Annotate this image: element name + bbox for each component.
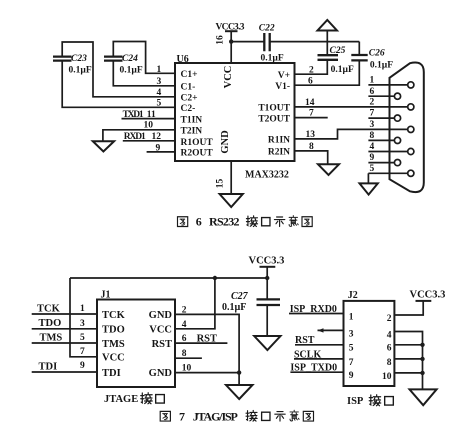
svg-text:V1-: V1- [275, 82, 290, 92]
svg-text:3: 3 [80, 319, 85, 329]
svg-text:C27: C27 [231, 291, 249, 302]
wire U6 pin15 GND [230, 161, 232, 194]
J1 pin7 wire from VCC rail [70, 278, 97, 357]
svg-text:6: 6 [308, 76, 313, 86]
capacitor C23 plates [53, 57, 72, 61]
ground at T2IN [93, 141, 114, 151]
svg-text:3: 3 [370, 120, 375, 130]
wire C26 bottom to U6 pin6 [295, 60, 360, 85]
svg-text:15: 15 [216, 179, 226, 189]
svg-text:3: 3 [157, 77, 162, 87]
DB9 pin stubs with numbers [368, 84, 407, 86]
wire C23 bottom to U6 pin5 [62, 61, 175, 108]
svg-text:4: 4 [182, 320, 187, 330]
J1 pin2 wire to ground rail [175, 314, 239, 385]
svg-text:2: 2 [309, 65, 314, 75]
capacitor C27 plates [257, 299, 281, 305]
svg-text:9: 9 [80, 361, 85, 371]
ground at C27 [254, 336, 280, 350]
svg-text:7: 7 [179, 409, 185, 423]
svg-text:5: 5 [80, 333, 85, 343]
svg-text:8: 8 [309, 142, 314, 152]
svg-text:RS232: RS232 [209, 215, 240, 229]
svg-text:4: 4 [157, 88, 162, 98]
svg-text:TDO: TDO [102, 325, 125, 336]
svg-text:10: 10 [182, 364, 192, 374]
wire rail to J1 pin4 [175, 278, 215, 329]
ground at DB9 pin5 [360, 183, 378, 194]
svg-text:7: 7 [80, 347, 85, 357]
svg-text:VCC: VCC [102, 353, 125, 364]
svg-text:TXD1: TXD1 [123, 110, 144, 120]
signal ISP_RXD0 wire [289, 313, 344, 315]
signal SCLK wire [294, 358, 344, 360]
op chip U6 MAX3232 box [175, 63, 295, 161]
svg-text:RST: RST [197, 333, 217, 344]
svg-text:8: 8 [182, 349, 187, 359]
capacitor C26 plates [351, 55, 367, 60]
svg-text:14: 14 [305, 98, 315, 108]
J2 pin6 wire [394, 344, 422, 346]
svg-text:TCK: TCK [102, 310, 126, 321]
svg-text:2: 2 [182, 305, 187, 315]
J2 pin10 wire [394, 372, 422, 374]
svg-text:R2OUT: R2OUT [181, 149, 214, 159]
capacitor C22 plates [264, 33, 269, 51]
svg-text:3: 3 [349, 329, 354, 339]
J1 pin10 wire [175, 372, 239, 374]
svg-text:5: 5 [370, 164, 375, 174]
svg-text:TMS: TMS [102, 339, 125, 350]
svg-text:1: 1 [80, 304, 85, 314]
wire C24 top to loop to U6 pin1 [113, 42, 175, 74]
svg-text:SCLK: SCLK [294, 349, 321, 360]
wire DB9 pin5 to ground [367, 173, 369, 183]
wire VCC3.3 to U6 pin16 [230, 31, 232, 63]
ground at U6 pin8 [318, 164, 339, 175]
svg-text:TDO: TDO [39, 318, 62, 329]
power bar [260, 266, 276, 268]
ground at J1 pin2/10 [226, 385, 253, 399]
svg-text:0.1µF: 0.1µF [120, 66, 143, 76]
svg-text:TDI: TDI [102, 368, 121, 379]
svg-text:2: 2 [387, 314, 392, 324]
svg-text:TMS: TMS [40, 332, 63, 343]
power up-triangle [318, 20, 338, 31]
svg-text:R1IN: R1IN [268, 136, 290, 146]
signal RXD1 wire to U6 pin12 [123, 140, 175, 142]
signal TMS wire [32, 342, 97, 344]
junction dot rail-C27 [265, 276, 269, 280]
svg-text:RST: RST [295, 335, 315, 346]
svg-text:12: 12 [152, 132, 162, 142]
VCC rail top [70, 277, 267, 279]
svg-text:0.1µF: 0.1µF [261, 54, 284, 64]
svg-text:0.1µF: 0.1µF [331, 65, 354, 75]
wire U6 pin8 R2IN to ground [295, 151, 328, 164]
svg-text:T2IN: T2IN [181, 127, 203, 137]
svg-text:6: 6 [182, 334, 187, 344]
svg-text:C22: C22 [259, 23, 275, 33]
svg-text:7: 7 [349, 358, 354, 368]
svg-text:C1+: C1+ [181, 70, 198, 80]
caption figure 7 [160, 409, 313, 423]
wire U6 pin9 stub [147, 151, 175, 153]
svg-text:V+: V+ [278, 71, 290, 81]
svg-text:JTAGE: JTAGE [104, 394, 138, 405]
svg-text:TDI: TDI [39, 361, 58, 372]
svg-text:9: 9 [370, 153, 375, 163]
svg-text:ISP_TXD0: ISP_TXD0 [290, 363, 337, 374]
wire VCC rail to C22 [231, 41, 264, 43]
wire C23 top to loop to U6 pin4 [62, 42, 175, 97]
wire U6 pin14 T1OUT to DB9 pin2 [295, 106, 408, 108]
svg-text:8: 8 [370, 131, 375, 141]
svg-text:VCC3.3: VCC3.3 [249, 256, 285, 267]
J2 pin2 wire to VCC3.3 [394, 301, 423, 315]
svg-text:C2+: C2+ [181, 94, 198, 104]
capacitor C24 plates [104, 57, 123, 61]
svg-text:GND: GND [149, 310, 173, 321]
J2 pin4 wire to ground rail [394, 332, 422, 390]
svg-text:6: 6 [387, 344, 392, 354]
svg-text:8: 8 [387, 358, 392, 368]
svg-text:J2: J2 [348, 290, 358, 301]
signal TDO wire [32, 328, 97, 330]
wire C22 to C26 rail [270, 41, 360, 43]
svg-text:6: 6 [370, 87, 375, 97]
svg-text:T1IN: T1IN [181, 115, 203, 125]
svg-text:RXD1: RXD1 [124, 132, 146, 142]
wire C25 bottom to U6 pin2 [295, 60, 328, 74]
svg-text:4: 4 [370, 142, 375, 152]
svg-text:T1OUT: T1OUT [258, 104, 290, 114]
junction dot VCC rail [229, 39, 233, 43]
J2 pin3 arrow stub [318, 329, 344, 331]
svg-text:ISP_RXD0: ISP_RXD0 [290, 304, 337, 315]
wire C27 to ground [266, 305, 268, 336]
wire U6 pin10 T2IN to ground [103, 130, 175, 141]
svg-text:11: 11 [147, 110, 156, 120]
svg-text:6: 6 [196, 215, 202, 229]
svg-text:13: 13 [306, 130, 316, 140]
svg-text:MAX3232: MAX3232 [245, 170, 289, 181]
connector J1 box [97, 300, 175, 388]
svg-text:9: 9 [349, 371, 354, 381]
J1 pin6 RST wire [175, 342, 227, 344]
svg-text:5: 5 [349, 344, 354, 354]
svg-text:1: 1 [157, 65, 162, 75]
svg-text:2: 2 [370, 98, 375, 108]
power bar under VCC3.3 [225, 30, 238, 32]
svg-text:GND: GND [149, 368, 173, 379]
junction dot pin2-pin10 [237, 370, 241, 374]
svg-text:1: 1 [370, 76, 375, 86]
svg-text:C24: C24 [122, 54, 138, 64]
svg-text:C25: C25 [330, 46, 346, 56]
J2 pin8 wire [394, 358, 422, 360]
svg-text:C23: C23 [71, 54, 87, 64]
connector J2 box [344, 301, 395, 386]
caption figure 6 [177, 215, 312, 229]
junction dot rail-pin4 [213, 276, 217, 280]
signal TCK wire [32, 313, 97, 315]
svg-text:VCC3.3: VCC3.3 [410, 290, 446, 301]
svg-text:C26: C26 [369, 49, 385, 59]
ground at U6 pin15 [220, 194, 243, 207]
svg-text:7: 7 [309, 109, 314, 119]
svg-text:TCK: TCK [37, 303, 61, 314]
svg-text:RST: RST [152, 339, 172, 350]
svg-text:VCC: VCC [223, 66, 234, 89]
svg-text:10: 10 [382, 372, 392, 382]
J1 pin8 stub [175, 357, 202, 359]
signal TDI wire [32, 371, 97, 373]
wire C24 bottom to U6 pin3 [113, 61, 175, 86]
svg-text:GND: GND [220, 130, 231, 154]
svg-text:1: 1 [349, 312, 354, 322]
DB9 pin circles right column [408, 82, 414, 88]
svg-text:C1-: C1- [181, 83, 196, 93]
svg-text:R1OUT: R1OUT [181, 138, 214, 148]
power bar J2 [416, 300, 432, 302]
svg-text:JTAG/ISP: JTAG/ISP [193, 409, 238, 423]
svg-text:C2-: C2- [181, 104, 196, 114]
wire VCC3.3 to rail [266, 267, 268, 278]
signal ISP_TXD0 wire [290, 371, 343, 373]
DB9 connector shell [390, 63, 424, 193]
wire C26 top lead [358, 42, 360, 55]
svg-text:T2OUT: T2OUT [258, 114, 290, 124]
svg-text:ISP: ISP [347, 396, 364, 407]
DB9 pin circles left column [394, 93, 400, 99]
signal RST wire [295, 344, 344, 346]
capacitor C25 plates [318, 55, 339, 60]
svg-text:4: 4 [387, 330, 392, 340]
svg-text:0.1µF: 0.1µF [370, 60, 393, 70]
wire U6 pin13 R1IN to DB9 pin3 [295, 129, 408, 139]
wire triangle through rail to C25 [326, 31, 328, 56]
svg-text:0.1µF: 0.1µF [222, 302, 246, 313]
svg-text:J1: J1 [101, 290, 111, 301]
svg-text:0.1µF: 0.1µF [69, 66, 92, 76]
svg-text:7: 7 [370, 109, 375, 119]
wire rail to C27 [266, 278, 268, 299]
svg-text:VCC: VCC [149, 325, 172, 336]
svg-text:R2IN: R2IN [268, 148, 290, 158]
svg-text:5: 5 [157, 98, 162, 108]
signal TXD1 wire to U6 pin11 [122, 118, 176, 120]
wire U6 pin7 T2OUT stub [295, 117, 328, 119]
svg-text:U6: U6 [177, 54, 189, 65]
ground at J2 [410, 389, 437, 405]
svg-text:16: 16 [216, 35, 226, 45]
